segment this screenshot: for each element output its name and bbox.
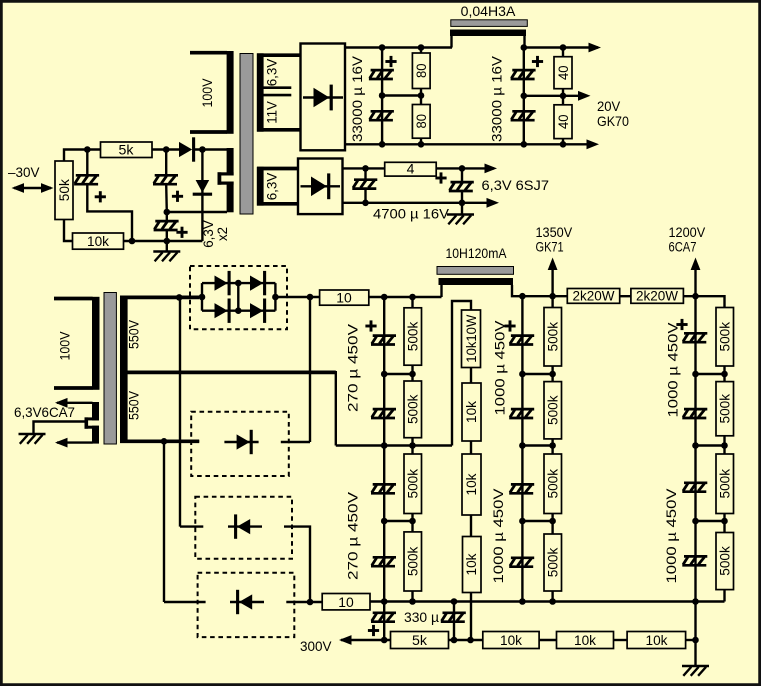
top rail to choke	[369, 296, 442, 298]
svg-text:500k: 500k	[404, 321, 420, 351]
node	[721, 518, 728, 525]
svg-text:500k: 500k	[716, 545, 732, 575]
node D	[129, 238, 136, 245]
node C7 bottom	[459, 200, 466, 207]
node C6 bottom	[362, 200, 369, 207]
rectifier U1 (top bridge block)	[301, 44, 346, 151]
resistor chain 500k col1	[404, 297, 422, 602]
plus C1	[95, 191, 106, 202]
svg-text:GK70: GK70	[597, 113, 629, 129]
wire 550V bottom lead down to D9	[163, 441, 165, 602]
resistor 5k bottom	[391, 632, 449, 649]
node C	[199, 146, 206, 153]
rectifier U2 (lower block)	[298, 159, 343, 215]
row link B col1	[336, 444, 452, 446]
node secondary top	[176, 294, 183, 301]
resistor 10k c	[462, 441, 481, 515]
arrow bottom 6,3V	[487, 198, 500, 208]
node	[451, 598, 458, 605]
arrow 6,3V output	[485, 164, 498, 174]
node F	[164, 209, 171, 216]
transformer T1 secondary winding 11V	[257, 128, 300, 132]
capacitor 33000u C5a	[511, 48, 536, 96]
ground G3	[19, 434, 46, 444]
resistor 10k chain b	[557, 632, 614, 649]
wire 5k to 10k	[449, 639, 483, 641]
svg-text:4: 4	[407, 161, 415, 177]
diode block D8 dashed box	[195, 497, 292, 559]
svg-text:5k: 5k	[412, 632, 428, 648]
capacitor 330u right	[441, 602, 466, 641]
resistor R10 top	[320, 290, 369, 306]
capacitor 270u b	[371, 409, 396, 418]
node	[549, 371, 556, 378]
ground G1	[153, 241, 180, 261]
wire 5k to D1	[152, 148, 179, 150]
transformer T1 secondary winding 6.3V	[257, 53, 300, 131]
capacitor 330u left	[371, 613, 396, 622]
arrow 6CA7 output	[691, 258, 701, 297]
diode D2	[193, 180, 212, 194]
svg-text:4700 µ 16V: 4700 µ 16V	[373, 206, 450, 222]
svg-text:550V: 550V	[126, 390, 142, 420]
capacitor 1000u d	[509, 558, 534, 567]
wire between 2k20W	[620, 295, 631, 297]
node	[721, 371, 728, 378]
D7 right lead	[281, 441, 310, 443]
capacitor 1000u a	[509, 336, 534, 345]
arrow mid output	[578, 91, 591, 101]
svg-text:0,04H3A: 0,04H3A	[461, 3, 516, 19]
node bridge mid bottom	[235, 307, 242, 314]
svg-text:6,3V: 6,3V	[264, 58, 280, 86]
resistor 5k	[101, 142, 153, 158]
svg-text:10: 10	[336, 290, 352, 306]
wire 550V top lead down to D8	[179, 297, 181, 526]
rail right of choke	[522, 295, 567, 297]
node R40 mid	[560, 93, 567, 100]
node	[692, 442, 699, 449]
node	[549, 442, 556, 449]
transformer T1 core	[240, 54, 253, 215]
node	[549, 518, 556, 525]
node R80 mid	[418, 92, 425, 99]
node bridge mid top	[235, 280, 242, 287]
svg-text:500k: 500k	[544, 321, 560, 351]
potentiometer 50k	[55, 161, 73, 220]
mid rail right	[524, 95, 587, 97]
arrow 300V output	[339, 635, 391, 645]
row link A col2	[522, 373, 552, 375]
node C5 mid	[521, 93, 528, 100]
svg-text:500k: 500k	[404, 394, 420, 424]
node 270u top	[381, 294, 388, 301]
top rail right of choke	[524, 46, 598, 48]
row link B col2	[522, 444, 552, 446]
node 6CA7 tap	[692, 293, 699, 300]
node R40 top	[560, 44, 567, 51]
svg-text:10k: 10k	[463, 400, 479, 423]
capacitor C2	[153, 150, 178, 213]
svg-text:2k20W: 2k20W	[636, 288, 679, 304]
row link A col1	[384, 373, 412, 375]
svg-text:10k: 10k	[463, 473, 479, 496]
row link C col3	[696, 520, 725, 522]
svg-text:33000 µ 16V: 33000 µ 16V	[489, 55, 505, 142]
row link C col1	[384, 520, 412, 522]
diode D1	[179, 137, 194, 161]
resistor 2k20W a	[567, 288, 619, 304]
wire 10k to D2 line	[124, 240, 203, 242]
node bottom C4	[379, 141, 386, 148]
node	[381, 598, 388, 605]
transformer T2 heater winding 6,3V6CA7	[57, 402, 99, 444]
bottom rail U2	[343, 202, 497, 204]
capacitor 33000u C5b	[511, 96, 536, 145]
transformer T1 bias winding 6.3Vx2	[218, 148, 234, 212]
node R80 bottom	[418, 141, 425, 148]
choke L2 10H120mA	[437, 267, 522, 298]
plus 330u left	[368, 625, 379, 636]
svg-text:1000 µ 450V: 1000 µ 450V	[663, 488, 679, 584]
bridge top branch wire	[202, 282, 275, 284]
node	[381, 518, 388, 525]
node E	[164, 238, 171, 245]
D8 right lead	[284, 527, 310, 602]
transformer T1 primary winding 100V	[190, 51, 234, 134]
node	[519, 598, 526, 605]
resistor 10k	[73, 233, 124, 249]
resistor R40b	[554, 96, 572, 145]
node	[519, 371, 526, 378]
svg-text:6,3V6CA7: 6,3V6CA7	[14, 404, 75, 420]
svg-text:40: 40	[555, 114, 571, 129]
node D9 out	[307, 599, 314, 606]
svg-text:80: 80	[413, 114, 429, 129]
rectifier block BR1 dashed box	[190, 266, 287, 329]
capacitor 1000u e	[682, 333, 707, 342]
node 500k col1 top	[409, 294, 416, 301]
svg-text:100V: 100V	[57, 331, 73, 361]
bridge right vertical	[274, 283, 276, 311]
svg-text:10k: 10k	[574, 632, 597, 648]
resistor 10k b	[462, 368, 481, 442]
svg-text:GK71: GK71	[536, 239, 564, 255]
svg-text:6,3V: 6,3V	[264, 172, 280, 200]
svg-text:x2: x2	[214, 227, 230, 241]
diode D7	[224, 430, 258, 454]
resistor R80b	[412, 89, 430, 145]
arrow top output	[589, 43, 602, 53]
svg-text:500k: 500k	[404, 546, 420, 576]
node	[721, 442, 728, 449]
capacitor 1000u f	[682, 409, 707, 418]
svg-text:500k: 500k	[716, 468, 732, 498]
resistor 10k chain c	[627, 632, 686, 649]
node mid C4	[379, 92, 386, 99]
svg-text:100V: 100V	[199, 78, 215, 108]
arrow bottom rail	[587, 139, 600, 149]
bias winding bottom lead	[167, 211, 227, 213]
D9 left lead	[164, 601, 206, 603]
node bridge out	[272, 294, 279, 301]
arrow heater top	[55, 398, 68, 408]
capacitor stack 270u wire	[383, 297, 385, 640]
bridge diode D3	[215, 271, 230, 295]
svg-text:500k: 500k	[716, 393, 732, 423]
svg-text:80: 80	[413, 63, 429, 78]
svg-text:2k20W: 2k20W	[573, 288, 616, 304]
node 300V	[381, 637, 388, 644]
wire 50k bottom to 10k	[64, 220, 73, 242]
node	[409, 598, 416, 605]
transformer T2 secondary 550V	[120, 296, 336, 446]
svg-text:500k: 500k	[544, 468, 560, 498]
transformer T2 primary 100V	[54, 297, 100, 390]
plus 1000u right	[676, 319, 687, 330]
svg-text:270 µ 450V: 270 µ 450V	[345, 491, 361, 580]
bridge left branch vertical	[201, 283, 203, 311]
diode block D9 dashed box	[198, 573, 295, 637]
node 4700u top	[362, 165, 369, 172]
bottom rail U1	[345, 143, 596, 145]
svg-text:330 µ: 330 µ	[404, 609, 439, 625]
node	[519, 518, 526, 525]
resistor R10 bottom	[322, 594, 370, 611]
svg-text:1000 µ 450V: 1000 µ 450V	[492, 320, 508, 416]
capacitor stack 1000u right wire	[694, 296, 696, 640]
heater center tap to ground	[34, 422, 85, 435]
bleeder wire 10k10W bend	[452, 301, 471, 446]
wire bridge out	[275, 296, 319, 298]
svg-text:33000 µ 16V: 33000 µ 16V	[349, 55, 365, 142]
node	[409, 518, 416, 525]
capacitor C6 4700u	[352, 168, 377, 202]
row link A col3	[696, 373, 725, 375]
svg-text:–30V: –30V	[8, 164, 40, 180]
arrow heater bottom	[55, 438, 68, 448]
row link C col2	[522, 520, 552, 522]
wiper double arrow	[12, 183, 54, 193]
D8 left lead	[180, 525, 203, 527]
bridge bottom branch wire	[202, 310, 275, 312]
D9 right lead	[286, 601, 322, 603]
node	[381, 371, 388, 378]
svg-text:10k: 10k	[500, 632, 523, 648]
resistor 10k chain a	[483, 632, 539, 649]
bridge diode D4	[250, 271, 265, 295]
resistor R80a	[412, 48, 430, 89]
D7 left lead	[128, 440, 200, 442]
T1 secondary center tap fork	[263, 88, 291, 95]
plus 1000u	[504, 320, 515, 331]
svg-text:50k: 50k	[56, 178, 72, 201]
bridge diode D5	[215, 299, 230, 323]
resistor chain 500k col2	[544, 296, 562, 601]
svg-text:500k: 500k	[716, 321, 732, 351]
node	[692, 371, 699, 378]
resistor R40a	[554, 48, 572, 96]
capacitor 1000u g	[682, 483, 707, 492]
svg-text:1000 µ 450V: 1000 µ 450V	[665, 322, 681, 418]
resistor R4	[385, 161, 437, 177]
bridge diode D6	[250, 299, 265, 323]
diode block D7 dashed box	[191, 412, 289, 476]
node bridge output	[307, 294, 314, 301]
node 1000u col top	[519, 293, 526, 300]
wire node C down through D2 to bottom	[201, 150, 203, 242]
choke L1 0,04H3A	[450, 20, 527, 48]
svg-text:6CA7: 6CA7	[669, 239, 697, 255]
node	[409, 442, 416, 449]
capacitor 33000u C4a	[369, 48, 394, 96]
capacitor 270u a	[371, 336, 396, 345]
capacitor C7 6,3V filter	[449, 168, 474, 202]
svg-text:10k: 10k	[646, 632, 669, 648]
node C5 top	[521, 44, 528, 51]
svg-text:10H120mA: 10H120mA	[446, 245, 508, 261]
wire to ground node	[686, 639, 696, 641]
capacitor stack 1000u wire	[521, 296, 523, 601]
svg-text:10: 10	[338, 594, 354, 610]
node B	[163, 146, 170, 153]
wire U2 top to R4	[343, 167, 385, 169]
node secondary bottom	[161, 438, 168, 445]
plus C2	[172, 191, 183, 202]
bottom rail	[370, 600, 725, 602]
svg-text:300V: 300V	[300, 638, 332, 654]
svg-text:500k: 500k	[404, 468, 420, 498]
svg-text:1000 µ 450V: 1000 µ 450V	[490, 488, 506, 584]
node	[467, 637, 474, 644]
resistor chain 500k col3	[716, 308, 734, 602]
node bridge in	[199, 294, 206, 301]
plus 270u	[365, 320, 376, 331]
capacitor 1000u b	[509, 409, 534, 418]
transformer T2 core	[104, 293, 116, 445]
wire top lead into bridge	[199, 296, 202, 298]
svg-text:5k: 5k	[119, 142, 135, 158]
ground G4	[682, 640, 709, 676]
wire 2k20W to 6CA7 node	[683, 296, 724, 307]
capacitor C1	[74, 150, 132, 242]
node C5 bottom	[521, 141, 528, 148]
row link B col3	[696, 444, 725, 446]
svg-text:6,3V 6SJ7: 6,3V 6SJ7	[482, 177, 550, 193]
wire 50k top to 5k	[64, 150, 101, 162]
svg-text:500k: 500k	[544, 394, 560, 424]
resistor 10k10W	[462, 310, 481, 368]
node R80 top	[418, 44, 425, 51]
wire D1 to bias winding	[194, 148, 227, 150]
arrow GK71 output	[548, 258, 558, 297]
plus C3	[176, 227, 187, 238]
svg-text:10k: 10k	[87, 233, 110, 249]
capacitor 270u c	[371, 484, 396, 493]
plus C4a	[385, 56, 396, 67]
svg-text:10k10W: 10k10W	[463, 314, 479, 363]
wire	[614, 639, 628, 641]
node GK71 tap	[549, 293, 556, 300]
bridge mid vertical	[237, 283, 239, 311]
plus C7	[435, 172, 446, 183]
diode D9	[230, 590, 264, 614]
node	[549, 598, 556, 605]
node	[692, 518, 699, 525]
capacitor 1000u h	[682, 556, 707, 565]
resistor 2k20W b	[631, 288, 684, 304]
svg-text:500k: 500k	[544, 547, 560, 577]
node A	[84, 146, 91, 153]
diode D8	[228, 514, 262, 538]
mid link C4 to R80	[382, 94, 421, 96]
svg-text:270 µ 450V: 270 µ 450V	[345, 323, 361, 412]
plus C5a	[532, 56, 543, 67]
node C7 top	[459, 165, 466, 172]
svg-text:10k: 10k	[463, 553, 479, 576]
resistor 10k d	[463, 515, 482, 640]
node	[692, 637, 699, 644]
wire	[539, 639, 556, 641]
svg-text:550V: 550V	[126, 319, 142, 349]
ground G2	[447, 203, 474, 225]
node	[409, 371, 416, 378]
wire node down to box D7	[309, 297, 311, 442]
capacitor 270u d	[371, 557, 396, 566]
wire R4 to arrow	[436, 167, 494, 169]
node	[381, 442, 388, 449]
capacitor C3	[154, 212, 179, 241]
svg-text:40: 40	[555, 65, 571, 80]
capacitor 1000u c	[509, 484, 534, 493]
node	[519, 442, 526, 449]
node R40 bottom	[560, 141, 567, 148]
node	[451, 637, 458, 644]
svg-text:20V: 20V	[597, 98, 621, 114]
top rail from U1	[345, 46, 452, 48]
node	[692, 598, 699, 605]
svg-text:11V: 11V	[264, 101, 280, 124]
capacitor 33000u C4b	[369, 96, 394, 145]
transformer T1 secondary winding 6.3V lower	[257, 167, 298, 206]
node top rail C4	[379, 44, 386, 51]
